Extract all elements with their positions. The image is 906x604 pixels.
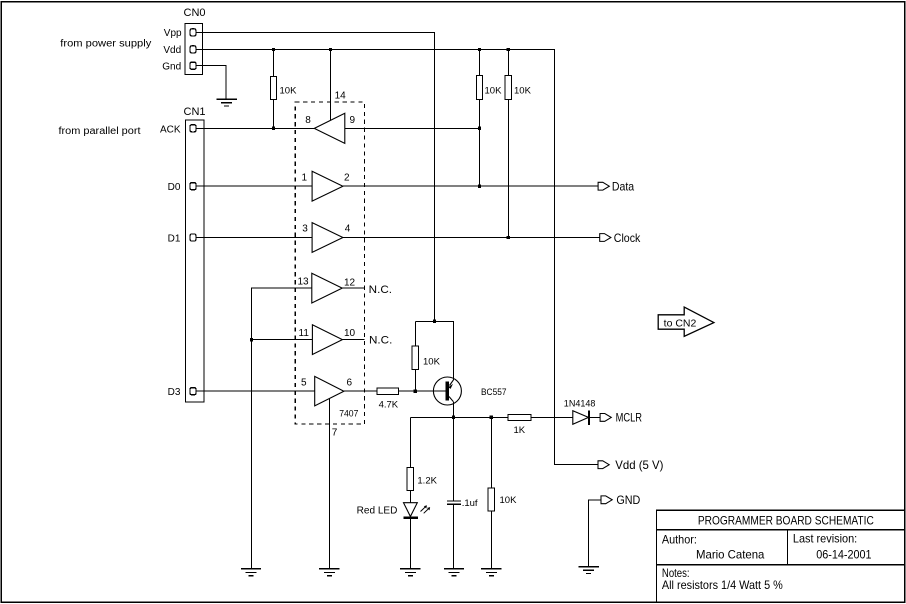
- svg-text:Author:: Author:: [662, 533, 697, 547]
- svg-text:PROGRAMMER BOARD SCHEMATIC: PROGRAMMER BOARD SCHEMATIC: [698, 513, 874, 527]
- terminal Vdd (5V): [598, 461, 609, 469]
- svg-text:3: 3: [302, 224, 308, 235]
- CN0 pin Vpp: [190, 29, 196, 36]
- svg-text:9: 9: [350, 115, 356, 126]
- svg-text:1K: 1K: [514, 425, 526, 436]
- svg-text:10K: 10K: [485, 86, 503, 97]
- ground (LED): [400, 569, 420, 576]
- junction base/R5: [414, 390, 417, 393]
- svg-text:7: 7: [332, 428, 338, 439]
- wire collector rail: [410, 416, 508, 418]
- junction Vpp/emitter rail: [433, 320, 436, 323]
- svg-text:Vdd: Vdd: [163, 45, 181, 56]
- svg-text:CN0: CN0: [184, 7, 206, 19]
- CN1 pin D3: [190, 388, 196, 395]
- connector CN0: [185, 24, 203, 75]
- CN1 pin D1: [190, 234, 196, 241]
- buffer U1F (pins 13-12): [312, 273, 342, 303]
- resistor R6 10K collector load: [488, 417, 494, 568]
- title block: [656, 510, 904, 602]
- CN1 pin ACK: [190, 125, 196, 132]
- wire D1 input: [196, 237, 312, 239]
- svg-text:2: 2: [344, 173, 350, 184]
- junction on Data line: [478, 185, 481, 188]
- svg-text:MCLR: MCLR: [616, 411, 643, 425]
- CN1 pin D0: [190, 183, 196, 190]
- resistor R7 1K: [508, 415, 531, 421]
- svg-text:14: 14: [335, 90, 347, 101]
- junction pin14 on Vdd: [329, 48, 332, 51]
- wire Gnd to ground: [196, 66, 226, 99]
- buffer U1C (pins 5-6): [315, 376, 344, 406]
- wire ack node down to data node: [479, 128, 481, 186]
- junction collector: [452, 416, 455, 419]
- ground (capacitor): [444, 569, 464, 576]
- svg-text:D1: D1: [168, 234, 181, 245]
- terminal Data: [598, 182, 609, 190]
- svg-text:8: 8: [305, 115, 311, 126]
- terminal Clock: [600, 234, 611, 242]
- wire pin12 stub: [342, 287, 364, 289]
- resistor R8 1.2K: [407, 467, 413, 490]
- junction R3 on Clock: [507, 236, 510, 239]
- connector CN1: [186, 120, 205, 402]
- svg-text:12: 12: [344, 278, 356, 289]
- svg-text:Clock: Clock: [614, 231, 641, 245]
- wire D0 input: [196, 185, 312, 187]
- wire pin9 to data node: [345, 127, 480, 129]
- wire R8 to LED: [409, 491, 411, 503]
- svg-text:4: 4: [345, 224, 351, 235]
- junction R3 on Vdd: [507, 48, 510, 51]
- wire Clock: [343, 237, 600, 239]
- svg-text:CN1: CN1: [184, 106, 206, 118]
- svg-text:4.7K: 4.7K: [379, 400, 399, 411]
- svg-text:13: 13: [298, 276, 310, 287]
- svg-text:10K: 10K: [280, 86, 298, 97]
- to CN2 arrow: [658, 307, 714, 336]
- svg-text:10: 10: [344, 328, 356, 339]
- svg-text:06-14-2001: 06-14-2001: [816, 548, 872, 562]
- IC U1 7407 dashed box: [295, 102, 364, 424]
- svg-text:10K: 10K: [514, 86, 532, 97]
- wire input 11 tie: [252, 339, 313, 341]
- svg-text:10K: 10K: [500, 495, 518, 506]
- svg-text:D3: D3: [168, 387, 181, 398]
- wire emitter rail: [415, 321, 453, 379]
- svg-text:Red LED: Red LED: [357, 506, 398, 517]
- svg-text:5: 5: [301, 378, 307, 389]
- wire D3 input: [196, 390, 315, 392]
- junction R1 top: [272, 48, 275, 51]
- resistor R3 10K pull-up: [505, 50, 511, 238]
- LED light arrows: [421, 505, 431, 513]
- svg-text:D0: D0: [168, 182, 181, 193]
- wire LED branch: [409, 417, 411, 467]
- svg-text:1: 1: [302, 173, 308, 184]
- wire cap to ground: [453, 504, 455, 569]
- transistor Q1 BC557: [433, 377, 461, 417]
- svg-text:7407: 7407: [339, 408, 358, 419]
- junction ACK/R2: [478, 127, 481, 130]
- svg-text:1N4148: 1N4148: [564, 399, 596, 410]
- svg-text:GND: GND: [616, 493, 640, 507]
- svg-text:Data: Data: [612, 180, 634, 194]
- wire Vpp rail: [196, 33, 435, 322]
- buffer U1D (pins 9-8, points left): [314, 113, 345, 143]
- CN0 pin Gnd: [190, 62, 196, 69]
- ground (GND terminal): [579, 567, 599, 574]
- junction R6 tap: [490, 416, 493, 419]
- svg-text:to CN2: to CN2: [664, 318, 697, 329]
- wire pin6 to R4: [344, 390, 377, 392]
- resistor R4 4.7K: [377, 388, 399, 395]
- junction R2 on Vdd: [478, 48, 481, 51]
- terminal GND: [601, 496, 612, 504]
- buffer U1A (pins 1-2): [312, 171, 343, 201]
- wire R7 to diode: [531, 416, 573, 418]
- svg-text:1.2K: 1.2K: [417, 476, 437, 487]
- wire pin10 stub: [342, 339, 364, 341]
- diode D1 1N4148: [573, 411, 600, 425]
- svg-text:N.C.: N.C.: [369, 335, 392, 347]
- wire Data: [343, 185, 598, 187]
- resistor R1 10K (Vdd to ACK): [270, 50, 276, 129]
- capacitor C1 .1uf: [447, 501, 461, 504]
- svg-text:11: 11: [299, 328, 310, 339]
- svg-text:N.C.: N.C.: [369, 284, 392, 296]
- svg-text:.1uf: .1uf: [462, 498, 478, 509]
- wire pin 14 to Vdd: [330, 50, 332, 121]
- ground (R6): [481, 569, 501, 576]
- wire pin 7 to ground: [328, 399, 330, 569]
- svg-text:6: 6: [347, 378, 353, 389]
- wire Vdd rail: [196, 50, 598, 465]
- ground (unused inputs): [241, 569, 261, 576]
- buffer U1B (pins 3-4): [312, 223, 343, 253]
- junction inputs 13/11: [250, 338, 253, 341]
- svg-text:Gnd: Gnd: [162, 61, 181, 72]
- wire R4 to base: [399, 390, 446, 392]
- svg-text:ACK: ACK: [160, 124, 181, 135]
- terminal MCLR: [600, 414, 611, 422]
- resistor R2 10K pull-up: [476, 50, 482, 129]
- svg-text:Vpp: Vpp: [164, 28, 182, 39]
- wire GND terminal: [589, 500, 601, 567]
- svg-text:Vdd (5 V): Vdd (5 V): [615, 458, 663, 472]
- junction R1 bottom: [272, 127, 275, 130]
- CN0 pin Vdd: [190, 46, 196, 53]
- svg-text:from parallel port: from parallel port: [59, 126, 141, 137]
- svg-text:from power supply: from power supply: [60, 39, 151, 50]
- ground (pin 7): [319, 569, 339, 576]
- LED D2 Red: [403, 503, 418, 569]
- svg-text:Mario Catena: Mario Catena: [696, 548, 765, 562]
- ground (CN0): [217, 99, 237, 106]
- wire unused inputs tie: [252, 288, 312, 569]
- wire ACK input segment: [196, 127, 314, 129]
- wire capacitor branch: [453, 417, 455, 500]
- svg-text:Last revision:: Last revision:: [793, 532, 857, 546]
- svg-text:All resistors 1/4 Watt 5 %: All resistors 1/4 Watt 5 %: [662, 578, 783, 592]
- svg-text:10K: 10K: [423, 357, 441, 368]
- svg-text:BC557: BC557: [481, 387, 507, 398]
- buffer U1E (pins 11-10): [312, 325, 342, 355]
- resistor R5 10K base pull-up: [412, 321, 418, 391]
